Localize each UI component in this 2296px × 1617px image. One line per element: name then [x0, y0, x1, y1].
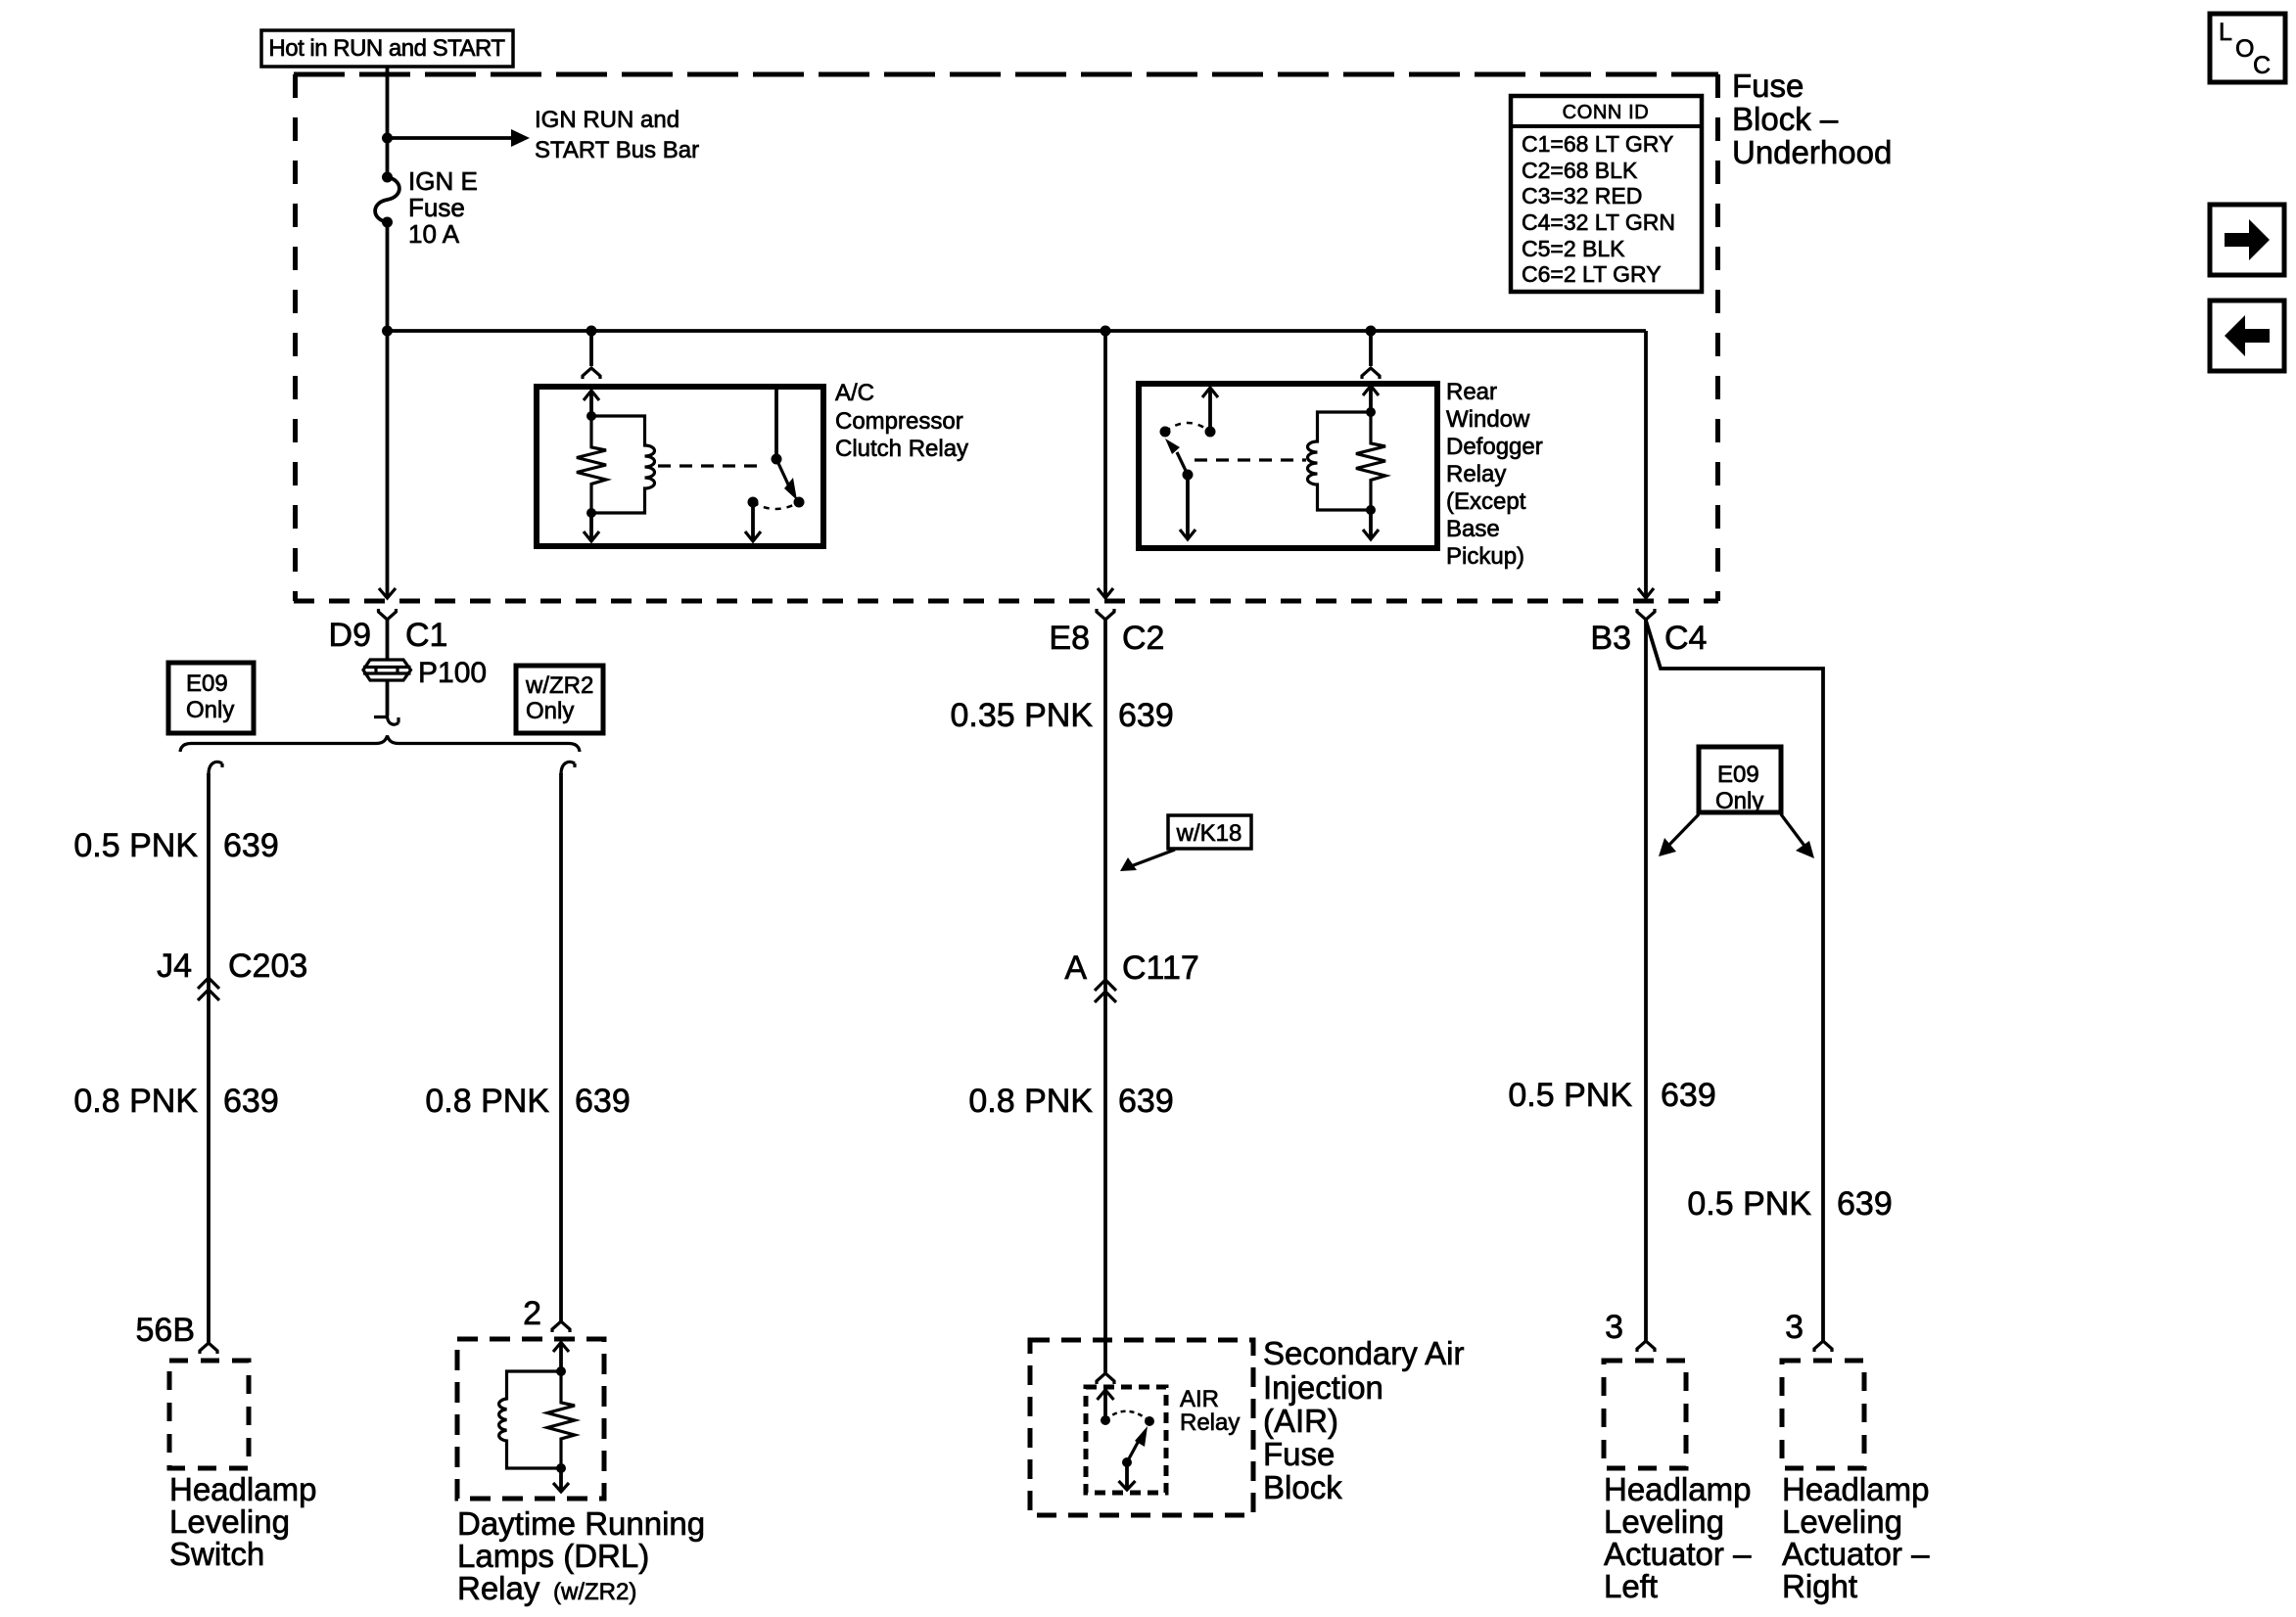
fuse block dashed border left edge [293, 74, 298, 601]
label: 0.8 PNK / 639 (left) [73, 1083, 278, 1120]
label: Rear Window Defogger Relay (Except Base Pickup) [1446, 379, 1543, 570]
svg-text:Fuse: Fuse [1263, 1436, 1335, 1472]
svg-text:Injection: Injection [1263, 1369, 1383, 1406]
A/C relay switch travel dashed arc [753, 502, 799, 509]
svg-text:D9: D9 [329, 617, 371, 654]
A/C relay output pin arrow [745, 502, 761, 541]
svg-text:3: 3 [1605, 1309, 1623, 1346]
DRL relay coil suppression resistor [547, 1371, 575, 1468]
svg-text:Base: Base [1446, 516, 1500, 542]
node: main bus junction [382, 326, 393, 337]
wire: E8 down to AIR fuse block [1103, 620, 1107, 1373]
AIR relay dashed box [1086, 1387, 1166, 1493]
label: Headlamp Leveling Switch [169, 1471, 316, 1572]
svg-text:Relay: Relay [1180, 1409, 1240, 1436]
label: Headlamp Leveling Actuator - Right [1782, 1471, 1930, 1604]
svg-text:Leveling: Leveling [1604, 1503, 1724, 1540]
fuse block dashed border right edge [1715, 74, 1720, 601]
wire: splice tail with pigtail end [374, 680, 398, 724]
svg-text:56B: 56B [136, 1312, 196, 1349]
svg-text:Relay: Relay [457, 1570, 540, 1606]
in-line connector double chevron C117 [1095, 980, 1116, 1002]
label: 0.8 PNK / 639 (AIR) [968, 1083, 1173, 1120]
defogger relay coil ground pin arrow [1363, 510, 1379, 539]
svg-text:2: 2 [523, 1295, 541, 1332]
svg-text:0.8 PNK: 0.8 PNK [425, 1083, 549, 1120]
svg-text:10 A: 10 A [408, 219, 460, 249]
fuse block dashed border top edge [294, 72, 1718, 77]
A/C relay coil suppression resistor [577, 416, 606, 513]
svg-text:639: 639 [1837, 1185, 1893, 1223]
wire: B3 down to left actuator [1644, 620, 1648, 1341]
A/C relay coil ground pin arrow [584, 513, 599, 541]
svg-text:639: 639 [223, 827, 279, 864]
svg-text:(AIR): (AIR) [1263, 1403, 1338, 1439]
label: Daytime Running Lamps (DRL) Relay (w/ZR2) [457, 1505, 705, 1606]
wire: tap down to A/C relay [589, 331, 593, 366]
defogger relay coil supply pin arrow [1363, 386, 1379, 417]
defogger relay switch output pin arrow [1180, 475, 1195, 539]
wire: headlamp leveling switch feed (pigtail top) [209, 762, 222, 1343]
defogger relay coil suppression resistor [1356, 412, 1385, 510]
headlamp leveling actuator left dashed box [1604, 1361, 1686, 1468]
wire: E8 feed down to boundary with arrowhead [1098, 331, 1113, 598]
option box: E09 Only (right) [1699, 747, 1781, 814]
label: Headlamp Leveling Actuator - Left [1604, 1471, 1752, 1604]
svg-text:0.8 PNK: 0.8 PNK [73, 1083, 198, 1120]
connector chevron at DRL relay [552, 1321, 570, 1332]
svg-text:Compressor: Compressor [835, 408, 963, 435]
rear window defogger relay box [1139, 384, 1437, 548]
svg-text:w/K18: w/K18 [1176, 820, 1242, 847]
svg-text:C1: C1 [405, 617, 447, 654]
node: rear defogger relay tap [1366, 326, 1377, 337]
brace spanning E09/wZR2 branch [180, 736, 580, 753]
fuse IGN E 10 A [375, 166, 478, 249]
svg-text:Pickup): Pickup) [1446, 543, 1524, 570]
label: 0.5 PNK / 639 (right actuator) [1687, 1185, 1892, 1223]
svg-text:Block –: Block – [1732, 101, 1839, 137]
svg-text:Headlamp: Headlamp [1604, 1471, 1751, 1507]
svg-text:Left: Left [1604, 1568, 1658, 1604]
connector chevron at defogger relay [1362, 368, 1380, 379]
label: Secondary Air Injection (AIR) Fuse Block [1263, 1335, 1464, 1505]
label: 0.35 PNK / 639 [950, 697, 1173, 734]
label: 0.5 PNK / 639 (left) [73, 827, 278, 864]
DRL relay lower node [556, 1463, 566, 1473]
svg-text:O: O [2235, 35, 2254, 63]
DRL relay pin arrow [553, 1343, 569, 1377]
defogger relay switch travel dashed arc [1165, 423, 1210, 432]
svg-text:0.5 PNK: 0.5 PNK [1687, 1185, 1811, 1223]
svg-text:Headlamp: Headlamp [169, 1471, 316, 1507]
headlamp leveling actuator right dashed box [1782, 1361, 1864, 1468]
A/C relay pin arrow (coil supply) [584, 391, 599, 421]
svg-text:A: A [1064, 949, 1087, 987]
A/C relay switch common pin [774, 387, 778, 459]
svg-text:C117: C117 [1122, 949, 1199, 987]
svg-text:L: L [2219, 19, 2232, 46]
svg-text:E09: E09 [1717, 762, 1759, 788]
svg-text:Leveling: Leveling [1782, 1503, 1902, 1540]
svg-text:Only: Only [186, 697, 234, 723]
svg-text:0.5 PNK: 0.5 PNK [1508, 1077, 1632, 1114]
svg-text:w/ZR2: w/ZR2 [525, 672, 593, 699]
AIR relay output pin arrow [1119, 1462, 1136, 1490]
svg-text:Underhood: Underhood [1732, 134, 1892, 170]
connector chevron E8/C2 [1097, 609, 1114, 620]
defogger relay switch movable arm [1165, 439, 1194, 481]
AIR relay travel dashed arc [1105, 1411, 1149, 1421]
AIR relay contact [1145, 1416, 1154, 1426]
DRL relay ground pin arrow [553, 1468, 569, 1492]
svg-text:START Bus Bar: START Bus Bar [535, 137, 699, 163]
node: bus bar tap junction [382, 133, 393, 144]
svg-text:AIR: AIR [1180, 1386, 1219, 1412]
AIR relay movable arm [1122, 1426, 1148, 1467]
svg-text:Only: Only [526, 698, 574, 724]
svg-text:C203: C203 [228, 947, 307, 985]
svg-text:Lamps (DRL): Lamps (DRL) [457, 1538, 649, 1574]
A/C relay switch movable arm [776, 459, 805, 508]
svg-text:639: 639 [575, 1083, 631, 1120]
defogger relay switch supply pin arrow [1202, 388, 1218, 438]
A/C relay output contact [748, 497, 759, 508]
connector chevron at A/C relay [583, 368, 600, 379]
connector chevron at AIR fuse block [1097, 1373, 1114, 1384]
callout box: w/K18 [1120, 815, 1251, 871]
svg-text:639: 639 [1661, 1077, 1716, 1114]
DRL relay dashed box [457, 1339, 604, 1499]
label: 0.5 PNK / 639 (left actuator) [1508, 1077, 1715, 1114]
connector chevron D9/C1 [379, 609, 397, 620]
svg-text:C2: C2 [1122, 620, 1164, 657]
LOC reference box [2210, 14, 2285, 82]
wire: bus down right side to B3 with arrowhead at boundary [1638, 331, 1654, 598]
svg-text:B3: B3 [1590, 620, 1631, 657]
A/C compressor clutch relay box [537, 387, 823, 546]
wire: branch to right actuator [1646, 621, 1823, 1341]
A/C relay coil [591, 416, 655, 513]
connector chevron at left actuator [1637, 1341, 1655, 1352]
svg-text:IGN RUN and: IGN RUN and [535, 107, 679, 133]
svg-text:Hot in RUN and START: Hot in RUN and START [268, 35, 505, 62]
svg-text:Secondary Air: Secondary Air [1263, 1335, 1464, 1371]
wire: D9 to splice P100 [386, 620, 390, 660]
in-line connector double chevron C203 [198, 978, 219, 1000]
node: E8 feed tap [1101, 326, 1111, 337]
A/C relay actuation dashed link [658, 464, 763, 467]
A/C relay switch pivot [772, 454, 782, 465]
svg-text:(Except: (Except [1446, 488, 1526, 515]
wire: fuse output down to bus [386, 222, 390, 331]
wire: ignition feed vertical from label box to fuse [386, 67, 390, 177]
pin label A / connector C117 [1064, 949, 1198, 987]
defogger relay actuation dashed link [1195, 458, 1306, 461]
svg-text:E8: E8 [1049, 620, 1090, 657]
svg-text:C: C [2253, 52, 2271, 79]
svg-text:C1=68 LT GRY: C1=68 LT GRY [1522, 131, 1673, 157]
AIR relay supply pin arrow [1098, 1390, 1114, 1425]
svg-text:Defogger: Defogger [1446, 434, 1543, 460]
svg-text:CONN ID: CONN ID [1563, 102, 1650, 123]
svg-text:Actuator –: Actuator – [1604, 1536, 1752, 1572]
svg-text:Only: Only [1715, 788, 1763, 814]
option box: E09 Only (left) [168, 663, 254, 733]
secondary air injection fuse block dashed box [1030, 1340, 1253, 1515]
DRL relay coil [499, 1371, 561, 1468]
svg-text:C2=68 BLK: C2=68 BLK [1522, 158, 1638, 183]
wire: DRL relay feed (pigtail top) [561, 762, 575, 1321]
fuse block dashed border bottom edge [294, 599, 1718, 604]
svg-text:C6=2 LT GRY: C6=2 LT GRY [1522, 261, 1662, 287]
svg-text:Fuse: Fuse [1732, 68, 1804, 104]
connector chevron at right actuator [1814, 1341, 1832, 1352]
splice P100 [363, 660, 411, 680]
svg-text:Actuator –: Actuator – [1782, 1536, 1930, 1572]
label: AIR Relay [1180, 1386, 1240, 1436]
defogger relay switch pivot contact [1160, 427, 1171, 438]
svg-text:A/C: A/C [835, 380, 874, 406]
connector chevron at headlamp leveling switch [200, 1343, 217, 1354]
svg-text:IGN E: IGN E [408, 166, 478, 196]
defogger relay coil lower node [1366, 505, 1376, 515]
svg-text:Switch: Switch [169, 1536, 264, 1572]
label: IGN RUN and START Bus Bar [535, 107, 699, 163]
wire: feed down to D9 connector with arrowhead at boundary [379, 331, 396, 598]
svg-text:639: 639 [1118, 1083, 1174, 1120]
connector chevron B3/C4 [1637, 609, 1655, 620]
node: A/C relay tap [586, 326, 597, 337]
svg-text:Daytime Running: Daytime Running [457, 1505, 705, 1542]
label: 0.8 PNK / 639 (DRL) [425, 1083, 630, 1120]
wire: arrow to IGN RUN and START Bus Bar [388, 129, 531, 147]
svg-text:Fuse: Fuse [408, 193, 465, 222]
arrow: E09 to left actuator wire [1659, 814, 1699, 856]
svg-text:Block: Block [1263, 1469, 1342, 1505]
left arrow reference box [2210, 300, 2284, 371]
svg-text:Relay: Relay [1446, 461, 1506, 487]
option box: w/ZR2 Only [516, 666, 603, 733]
svg-text:C4=32 LT GRN: C4=32 LT GRN [1522, 209, 1675, 235]
svg-text:J4: J4 [157, 947, 192, 985]
svg-text:639: 639 [1118, 697, 1174, 734]
svg-text:0.5 PNK: 0.5 PNK [73, 827, 198, 864]
svg-text:C5=2 BLK: C5=2 BLK [1522, 236, 1625, 261]
wire: horizontal bus inside fuse block [388, 329, 1647, 333]
svg-text:C3=32 RED: C3=32 RED [1522, 183, 1642, 208]
svg-text:Right: Right [1782, 1568, 1857, 1604]
svg-text:0.8 PNK: 0.8 PNK [968, 1083, 1093, 1120]
svg-text:P100: P100 [418, 657, 487, 689]
svg-text:0.35 PNK: 0.35 PNK [950, 697, 1093, 734]
svg-text:Headlamp: Headlamp [1782, 1471, 1929, 1507]
svg-text:C4: C4 [1664, 620, 1707, 657]
arrow: E09 to right actuator wire [1781, 814, 1814, 858]
svg-text:639: 639 [223, 1083, 279, 1120]
svg-text:3: 3 [1785, 1309, 1804, 1346]
A/C relay coil lower node [586, 508, 596, 518]
label: Fuse Block - Underhood [1732, 68, 1892, 170]
svg-text:Window: Window [1446, 406, 1530, 433]
label box: Hot in RUN and START [261, 30, 513, 67]
headlamp leveling switch dashed box [169, 1361, 249, 1468]
CONN ID table [1511, 96, 1702, 292]
defogger relay coil [1308, 412, 1372, 510]
svg-text:(w/ZR2): (w/ZR2) [553, 1579, 636, 1605]
svg-text:E09: E09 [186, 670, 228, 697]
svg-text:Rear: Rear [1446, 379, 1497, 405]
svg-text:Leveling: Leveling [169, 1503, 290, 1540]
label: A/C Compressor Clutch Relay [835, 380, 968, 462]
svg-text:Clutch Relay: Clutch Relay [835, 436, 968, 462]
right arrow reference box [2210, 205, 2284, 275]
pin label J4 / connector C203 [157, 947, 307, 985]
wire: tap down to defogger relay [1369, 331, 1373, 366]
